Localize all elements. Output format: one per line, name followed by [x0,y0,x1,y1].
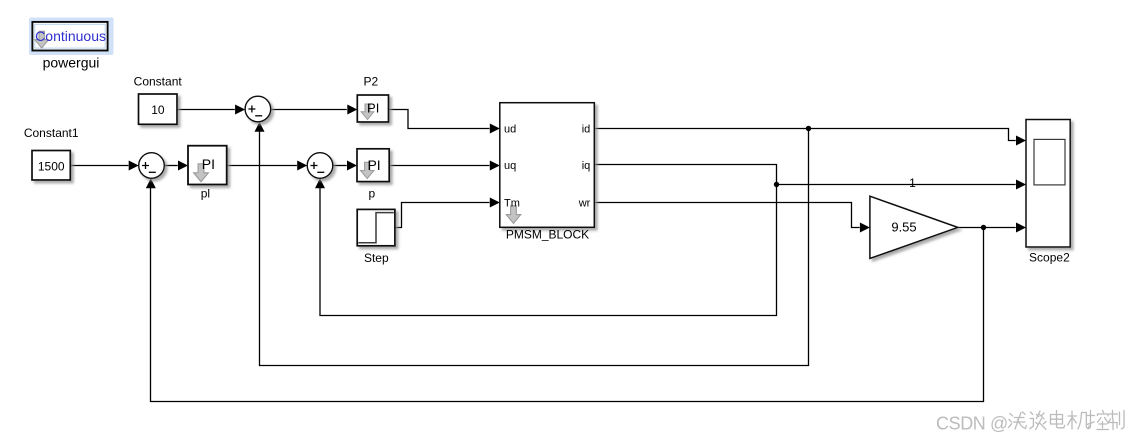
svg-text:pl: pl [201,187,210,201]
sum junction Sum1 [245,96,271,122]
wire W13: iq branch to Scope2 input 2 [777,180,1027,190]
svg-text:powergui: powergui [43,55,100,71]
svg-text:PI: PI [202,156,215,172]
PI controller pl [188,146,227,185]
powergui block [29,18,114,56]
constant C=1500 block [32,151,70,181]
wire W5: Sum2 output to PI block pl [164,161,188,171]
svg-text:PI: PI [367,157,380,173]
wire W10: PMSM id output to Scope2 input 1 [594,129,1026,146]
hanzi tan 谈 [1030,411,1046,430]
PI controller p [357,149,389,182]
svg-text:Constant: Constant [134,74,183,88]
svg-text:10: 10 [151,103,165,117]
junction node: id branch [806,126,811,131]
hanzi zhi 制 [1108,411,1124,430]
scope block Scope2 [1026,120,1070,248]
svg-text:id: id [582,123,591,135]
svg-text:ud: ud [504,123,516,135]
watermark CSDN [936,414,1008,434]
PI controller P2 [357,95,388,122]
wire W3: P2 output to PMSM ud port [389,110,500,134]
wire W2: Sum1 output to PI block P2 [271,105,358,115]
wire W8: p output to PMSM uq port [389,161,500,171]
gain block 9.55 [870,196,958,258]
wire W6: pl output to Sum3 [227,161,308,171]
svg-text:1: 1 [909,176,916,190]
svg-text:CSDN @: CSDN @ [936,414,1008,434]
svg-text:iq: iq [582,160,591,172]
sum junction Sum3 [307,153,333,179]
step source block [357,209,395,245]
junction node: speed branch [981,225,986,230]
svg-text:1500: 1500 [38,160,65,174]
svg-text:P2: P2 [363,75,378,89]
svg-text:Continuous: Continuous [35,28,106,44]
sum junction Sum2 [139,153,165,179]
wire W4: Constant1(1500) output to Sum2 [70,161,138,171]
wire W16: speed feedback to Sum2 minus input [146,178,984,401]
wire W1: Constant(10) output to Sum1 [177,105,245,115]
svg-text:PMSM_BLOCK: PMSM_BLOCK [506,227,589,241]
svg-text:PI: PI [367,101,379,116]
svg-text:wr: wr [578,197,591,209]
junction node: iq branch [774,182,779,187]
hanzi qian 浅 [1009,412,1027,429]
wire W7: Sum3 output to PI block p [333,161,357,171]
svg-text:9.55: 9.55 [891,219,916,234]
hanzi dian 电 [1051,411,1065,428]
hanzi ji 机 [1068,411,1090,429]
constant C=10 block [139,94,178,124]
wire W11: id feedback to Sum1 minus input [255,122,809,366]
svg-text:Scope2: Scope2 [1029,251,1070,265]
wire W15: Gain output to Scope2 input 3 [958,223,1026,233]
wire W9: Step output to PMSM Tm port [395,198,500,228]
svg-text:Tm: Tm [504,197,520,209]
svg-text:uq: uq [504,160,516,172]
svg-text:Step: Step [364,251,389,265]
hanzi kong 控 [1087,411,1109,430]
wire W12: PMSM iq output feedback to Sum3 minus input [315,165,777,316]
svg-text:p: p [369,187,376,201]
wire W14: PMSM wr output to Gain input [594,203,870,233]
PMSM_BLOCK subsystem [500,103,595,228]
watermark hanzi 浅谈电机控制 [1009,411,1125,430]
svg-text:Constant1: Constant1 [24,126,79,140]
